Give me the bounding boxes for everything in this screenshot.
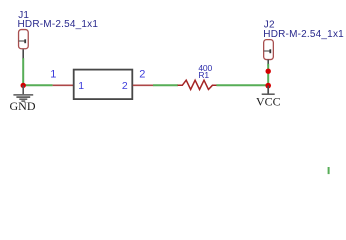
- svg-text:HDR-M-2.54_1x1: HDR-M-2.54_1x1: [263, 29, 344, 40]
- wire resistor R1 to VCC node: [216, 84, 268, 86]
- junction dot at GND node: [21, 83, 26, 88]
- svg-text:HDR-M-2.54_1x1: HDR-M-2.54_1x1: [18, 19, 99, 30]
- component U1 body (2-pin box): [74, 70, 133, 100]
- wire J1 to GND node (vertical): [22, 58, 24, 85]
- pin stub U1 pin 2: [133, 84, 153, 86]
- svg-text:2: 2: [122, 80, 128, 92]
- svg-text:R1: R1: [198, 70, 209, 80]
- svg-text:GND: GND: [10, 99, 36, 113]
- wire GND node to U pin 1 (horizontal): [23, 84, 52, 86]
- connector J1 body: [19, 30, 29, 49]
- pin stub U1 pin 1: [53, 84, 74, 86]
- resistor R1 zigzag body: [178, 80, 217, 89]
- VCC symbol bar: [262, 93, 275, 95]
- connector J2 pin stem: [267, 60, 269, 66]
- VCC symbol stem: [267, 86, 269, 94]
- svg-text:1: 1: [50, 69, 56, 81]
- connector J2 body: [264, 40, 274, 60]
- stray wire segment bottom right: [328, 167, 330, 174]
- connector J1 pin 1 line: [19, 40, 25, 42]
- svg-text:VCC: VCC: [256, 95, 281, 109]
- wire J2 to VCC node (vertical): [267, 64, 269, 86]
- wire U1 pin 2 to resistor R1: [153, 84, 178, 86]
- connector J2 pin 1 line: [264, 50, 270, 52]
- ground symbol bars: [13, 95, 33, 101]
- svg-text:2: 2: [139, 69, 145, 81]
- svg-text:1: 1: [78, 80, 84, 92]
- connector J1 pin stem: [22, 49, 24, 59]
- connector J2 pin 1 end tick: [269, 49, 271, 53]
- junction dot at VCC node: [265, 83, 271, 89]
- junction dot at J2 pin end: [266, 69, 271, 74]
- ground symbol stem: [22, 85, 24, 94]
- connector J1 pin 1 end tick: [24, 39, 26, 43]
